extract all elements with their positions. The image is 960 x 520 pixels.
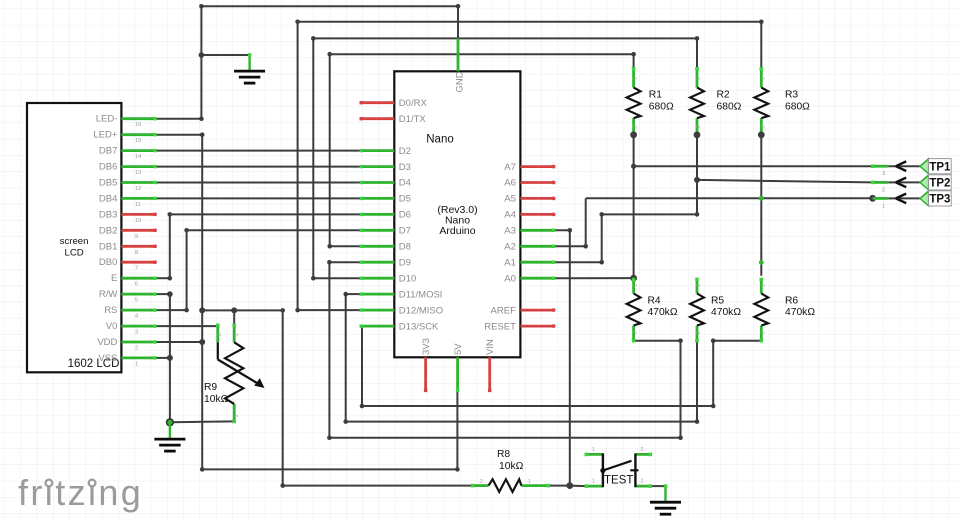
svg-text:R1: R1 bbox=[649, 90, 662, 101]
wire GND down to ground bbox=[200, 6, 202, 55]
svg-text:4: 4 bbox=[135, 314, 138, 320]
wire R3 top lead wire bbox=[760, 22, 762, 69]
svg-text:7: 7 bbox=[135, 266, 138, 272]
svg-text:VSS: VSS bbox=[98, 353, 117, 364]
junction bbox=[200, 132, 205, 137]
wire V0 to R9 wiper bbox=[155, 325, 218, 327]
wire A2 riser bbox=[585, 198, 587, 246]
wire D11 horizontal bbox=[346, 293, 362, 295]
wire R9 pin1 drop bbox=[233, 310, 235, 325]
nano pin A4 bbox=[520, 213, 553, 216]
resistor R6 470kohm bbox=[760, 280, 763, 294]
wire R2 top lead wire bbox=[696, 38, 698, 68]
wire RS to D7 bbox=[187, 229, 362, 231]
svg-text:2: 2 bbox=[641, 479, 644, 485]
junction bbox=[200, 467, 205, 472]
wire E to D6 bbox=[170, 213, 361, 215]
svg-text:1: 1 bbox=[696, 284, 702, 287]
svg-text:680Ω: 680Ω bbox=[785, 101, 810, 112]
svg-text:1: 1 bbox=[135, 361, 138, 367]
junction bbox=[199, 307, 205, 313]
wire R1 top lead wire bbox=[633, 54, 635, 69]
junction bbox=[280, 483, 285, 488]
junction bbox=[694, 177, 700, 183]
wire R/W-VSS column bbox=[169, 294, 171, 422]
wire A3 drop to TEST bbox=[569, 230, 571, 485]
test point TP3 bbox=[888, 197, 920, 199]
wire R1 feed riser bbox=[329, 54, 331, 246]
svg-text:1: 1 bbox=[592, 447, 595, 453]
svg-text:DB1: DB1 bbox=[99, 241, 117, 252]
junction bbox=[758, 131, 765, 138]
svg-text:LED-: LED- bbox=[96, 114, 118, 125]
svg-text:10kΩ: 10kΩ bbox=[204, 394, 229, 405]
nano pin D9 bbox=[361, 261, 394, 264]
svg-text:5: 5 bbox=[135, 298, 138, 304]
test point TP2 bbox=[888, 181, 920, 183]
junction bbox=[678, 435, 683, 440]
svg-text:RS: RS bbox=[104, 305, 117, 316]
junction bbox=[759, 20, 764, 25]
resistor R2 body bbox=[690, 88, 704, 119]
svg-text:1: 1 bbox=[760, 284, 766, 287]
junction bbox=[168, 212, 173, 217]
ground GND1 top bbox=[248, 55, 250, 71]
nano pin D2 bbox=[361, 149, 394, 152]
junction bbox=[295, 308, 300, 313]
svg-text:13: 13 bbox=[135, 170, 141, 176]
svg-text:D9: D9 bbox=[399, 257, 411, 268]
junction bbox=[168, 276, 173, 281]
svg-text:3: 3 bbox=[217, 333, 223, 336]
LCD pin DB7 bbox=[121, 149, 155, 152]
svg-text:680Ω: 680Ω bbox=[717, 101, 742, 112]
svg-text:A6: A6 bbox=[504, 178, 516, 189]
wire RS riser bbox=[186, 230, 188, 310]
LCD pin DB6 bbox=[121, 165, 155, 168]
ground GND3 test bbox=[664, 486, 666, 502]
nano pin D13/SCK bbox=[361, 325, 394, 328]
svg-text:Arduino: Arduino bbox=[439, 225, 475, 237]
resistor R5 470kohm bbox=[696, 280, 699, 294]
junction bbox=[327, 260, 332, 265]
svg-text:A1: A1 bbox=[504, 257, 516, 268]
nano pin A3 bbox=[520, 229, 553, 232]
green connection bbox=[759, 196, 764, 201]
wire TP2 wire bbox=[697, 180, 873, 183]
svg-text:1: 1 bbox=[592, 479, 595, 485]
nano pin 5V (bottom) bbox=[456, 357, 459, 390]
wire A1 riser bbox=[601, 214, 603, 262]
LCD pin R/W bbox=[121, 293, 155, 296]
svg-text:2: 2 bbox=[633, 125, 639, 128]
wire LED+ horizontal bbox=[155, 134, 202, 136]
potentiometer R9 10kohm bbox=[216, 325, 219, 342]
svg-text:680Ω: 680Ω bbox=[649, 101, 674, 112]
svg-text:D5: D5 bbox=[399, 194, 411, 205]
resistor R1 680ohm bbox=[632, 69, 635, 88]
nano pin D10 bbox=[361, 277, 394, 280]
svg-text:2: 2 bbox=[882, 187, 885, 193]
wire A0 horizontal bbox=[554, 277, 634, 279]
svg-text:470kΩ: 470kΩ bbox=[711, 307, 741, 318]
svg-text:DB7: DB7 bbox=[99, 146, 117, 157]
svg-text:V0: V0 bbox=[106, 321, 118, 332]
nano pin D12/MISO bbox=[361, 309, 394, 312]
wire R8 to TEST junction bbox=[548, 485, 570, 487]
wire E horizontal bbox=[155, 277, 170, 279]
ground GND2 left bbox=[169, 423, 171, 439]
wire R1 column bbox=[633, 135, 635, 278]
nano pin A7 bbox=[520, 165, 553, 168]
svg-text:D12/MISO: D12/MISO bbox=[399, 305, 443, 316]
junction bbox=[327, 435, 332, 440]
nano pin A5 bbox=[520, 197, 553, 200]
wire junction to TEST pin1 bbox=[570, 485, 587, 488]
svg-text:2: 2 bbox=[696, 125, 702, 128]
LCD pin DB3 bbox=[121, 213, 155, 216]
svg-text:Nano: Nano bbox=[426, 134, 454, 146]
svg-text:AREF: AREF bbox=[491, 305, 517, 316]
svg-text:9: 9 bbox=[135, 234, 138, 240]
svg-text:R9: R9 bbox=[204, 382, 217, 393]
LCD pin LED- bbox=[121, 117, 155, 120]
svg-text:2: 2 bbox=[633, 331, 639, 334]
svg-text:R6: R6 bbox=[785, 295, 798, 306]
wire D11 drop bbox=[345, 294, 347, 422]
junction bbox=[167, 291, 173, 297]
svg-text:1: 1 bbox=[633, 77, 639, 80]
svg-text:D2: D2 bbox=[399, 146, 411, 157]
nano pin GND (top) bbox=[457, 38, 460, 71]
svg-text:TP1: TP1 bbox=[929, 161, 951, 173]
junction bbox=[456, 4, 461, 9]
junction bbox=[455, 467, 460, 472]
svg-text:2: 2 bbox=[480, 479, 483, 485]
wire R6 bottom link bbox=[713, 340, 761, 342]
nano pin A1 bbox=[520, 261, 553, 264]
svg-text:A2: A2 bbox=[504, 242, 516, 253]
svg-text:1: 1 bbox=[234, 333, 240, 336]
wire TEST pin2 to ground bbox=[650, 485, 665, 487]
wire 5V drop to R8 bbox=[282, 310, 284, 485]
wire R6 bottom bus bbox=[362, 405, 713, 407]
wire RS horizontal bbox=[155, 309, 187, 311]
junction bbox=[199, 4, 204, 9]
svg-text:1: 1 bbox=[696, 77, 702, 80]
svg-text:D4: D4 bbox=[399, 178, 411, 189]
LCD pin LED+ bbox=[121, 133, 155, 136]
junction bbox=[630, 131, 637, 138]
svg-text:A5: A5 bbox=[504, 194, 516, 205]
svg-text:2: 2 bbox=[696, 331, 702, 334]
wire-end connection markers bbox=[632, 67, 636, 71]
wire D10 horizontal bbox=[313, 277, 361, 279]
wire VDD horizontal bbox=[155, 341, 202, 343]
junction bbox=[711, 338, 716, 343]
IC U1 Arduino Nano bbox=[394, 71, 520, 357]
junction bbox=[311, 276, 316, 281]
wire 5V column bbox=[201, 135, 203, 470]
wire TP1 wire bbox=[634, 165, 873, 167]
svg-text:LCD: LCD bbox=[64, 247, 83, 258]
junction bbox=[566, 482, 573, 489]
resistor R1 body bbox=[627, 88, 641, 119]
svg-text:VIN: VIN bbox=[485, 339, 496, 355]
junction bbox=[568, 228, 573, 233]
junction bbox=[360, 404, 365, 409]
wire LCD-DB5 to nano bbox=[155, 182, 361, 184]
junction bbox=[631, 52, 636, 57]
svg-text:14: 14 bbox=[135, 154, 141, 160]
junction bbox=[695, 419, 700, 424]
wire D9 horizontal bbox=[329, 261, 361, 263]
LCD pin V0 bbox=[121, 325, 155, 328]
LCD pin DB4 bbox=[121, 197, 155, 200]
nano pin 3V3 (bottom) bbox=[424, 357, 427, 390]
wire R3 column bbox=[760, 135, 762, 276]
junction bbox=[695, 36, 700, 41]
svg-text:D7: D7 bbox=[399, 226, 411, 237]
svg-text:10: 10 bbox=[135, 218, 141, 224]
nano pin D1/TX bbox=[361, 117, 394, 120]
wire GND riser bbox=[457, 6, 459, 38]
svg-text:2: 2 bbox=[135, 346, 138, 352]
nano pin AREF bbox=[520, 309, 553, 312]
junction bbox=[343, 292, 348, 297]
nano pin D6 bbox=[361, 213, 394, 216]
junction bbox=[631, 164, 636, 169]
wire LCD-DB4 to nano bbox=[155, 197, 361, 199]
svg-text:screen: screen bbox=[60, 236, 89, 247]
svg-text:LED+: LED+ bbox=[93, 130, 117, 141]
nano pin D0/RX bbox=[361, 101, 394, 104]
resistor R3 680ohm bbox=[760, 69, 763, 88]
wire R1 top horizontal bbox=[330, 53, 634, 55]
wire R9 pin2 to ground bbox=[170, 420, 234, 423]
junction bbox=[583, 244, 588, 249]
wire R4 bottom bus bbox=[329, 437, 680, 439]
resistor R8 10kohm bbox=[473, 484, 489, 487]
wire R3 top horizontal bbox=[298, 21, 762, 23]
wire LED- horizontal bbox=[155, 118, 201, 120]
svg-text:A4: A4 bbox=[504, 210, 516, 221]
junction bbox=[599, 260, 604, 265]
wire A3 horizontal bbox=[554, 229, 570, 231]
wire R4 bottom link bbox=[634, 340, 681, 342]
resistor R3 body bbox=[754, 88, 768, 119]
svg-text:A7: A7 bbox=[504, 162, 516, 173]
svg-text:RESET: RESET bbox=[484, 321, 516, 332]
svg-text:8: 8 bbox=[135, 250, 138, 256]
wire R2 feed riser bbox=[312, 38, 314, 278]
wire D8 horizontal bbox=[330, 245, 362, 247]
wire R4 bus riser bbox=[680, 341, 682, 438]
junction bbox=[343, 419, 348, 424]
LCD pin E bbox=[121, 277, 155, 280]
svg-text:fritzing: fritzing bbox=[18, 472, 143, 513]
svg-text:R2: R2 bbox=[717, 90, 730, 101]
wire R6 bus riser bbox=[712, 341, 714, 406]
junction bbox=[678, 338, 683, 343]
junction bbox=[869, 195, 876, 202]
nano pin A6 bbox=[520, 181, 553, 184]
resistor R4 body bbox=[627, 294, 641, 326]
svg-text:E: E bbox=[111, 273, 117, 284]
wire D9 drop bbox=[328, 262, 330, 438]
svg-text:D11/MOSI: D11/MOSI bbox=[399, 289, 443, 300]
svg-text:R/W: R/W bbox=[99, 289, 118, 300]
svg-text:TP3: TP3 bbox=[929, 194, 950, 206]
svg-text:2: 2 bbox=[234, 414, 240, 417]
resistor R5 body bbox=[690, 294, 704, 326]
wire A1 to R2 column bbox=[602, 213, 697, 215]
svg-text:D13/SCK: D13/SCK bbox=[399, 321, 439, 332]
svg-text:16: 16 bbox=[135, 122, 141, 128]
wire R2 column bbox=[696, 135, 698, 215]
svg-text:3: 3 bbox=[135, 330, 138, 336]
wire GND down to LED- bbox=[200, 55, 202, 119]
svg-text:1: 1 bbox=[633, 284, 639, 287]
LCD pin RS bbox=[121, 309, 155, 312]
svg-text:R5: R5 bbox=[711, 295, 724, 306]
junction bbox=[711, 404, 716, 409]
svg-text:2: 2 bbox=[760, 125, 766, 128]
wire to R8 pin2 bbox=[283, 485, 473, 487]
junction bbox=[599, 212, 604, 217]
nano pin D3 bbox=[361, 165, 394, 168]
svg-text:470kΩ: 470kΩ bbox=[648, 307, 678, 318]
LCD pin DB2 bbox=[121, 229, 155, 232]
R9 wiper arrow bbox=[218, 360, 260, 385]
LCD pin VSS bbox=[121, 356, 155, 359]
svg-text:DB5: DB5 bbox=[99, 178, 117, 189]
junction bbox=[327, 52, 332, 57]
wire VSS horizontal bbox=[155, 357, 170, 359]
junction bbox=[295, 20, 300, 25]
junction bbox=[695, 212, 700, 217]
junction bbox=[184, 228, 189, 233]
svg-text:TP2: TP2 bbox=[929, 178, 950, 190]
junction bbox=[311, 36, 316, 41]
LCD pin VDD bbox=[121, 341, 155, 344]
wire to ground symbol bbox=[201, 54, 249, 56]
svg-text:15: 15 bbox=[135, 138, 141, 144]
svg-text:D0/RX: D0/RX bbox=[399, 98, 428, 109]
svg-text:1: 1 bbox=[882, 203, 885, 209]
svg-text:A0: A0 bbox=[504, 273, 516, 284]
svg-text:VDD: VDD bbox=[97, 337, 117, 348]
junction bbox=[184, 308, 189, 313]
svg-text:D1/TX: D1/TX bbox=[399, 114, 427, 125]
svg-text:11: 11 bbox=[135, 202, 141, 208]
nano pin D5 bbox=[361, 197, 394, 200]
wire LCD-DB7 to nano bbox=[155, 150, 361, 152]
wire 5V bottom bus bbox=[202, 468, 457, 470]
svg-text:R3: R3 bbox=[785, 90, 798, 101]
svg-text:2: 2 bbox=[641, 447, 644, 453]
nano pin A2 bbox=[520, 245, 553, 248]
junction ground2 bbox=[167, 419, 174, 426]
wire A1 horizontal bbox=[554, 261, 602, 263]
svg-text:R8: R8 bbox=[497, 449, 510, 460]
wire TP3 wire right bbox=[761, 197, 872, 199]
junction bbox=[167, 355, 173, 361]
svg-text:R4: R4 bbox=[648, 295, 661, 306]
wire R5 bus riser bbox=[696, 341, 698, 422]
wire D13 drop bbox=[361, 326, 363, 406]
junction bbox=[199, 52, 205, 58]
wire LCD-DB6 to nano bbox=[155, 166, 361, 168]
svg-text:DB4: DB4 bbox=[99, 193, 117, 204]
svg-text:5V: 5V bbox=[453, 343, 464, 355]
svg-text:DB0: DB0 bbox=[99, 257, 117, 268]
junction bbox=[694, 131, 701, 138]
LCD pin DB1 bbox=[121, 245, 155, 248]
nano pin VIN (bottom) bbox=[488, 357, 491, 390]
wire R5 bottom bus bbox=[346, 421, 697, 423]
wire 5V to R9/R8 bbox=[202, 309, 283, 311]
svg-text:A3: A3 bbox=[504, 226, 516, 237]
wire ground3 corner bbox=[665, 486, 667, 488]
wire R3 feed riser bbox=[297, 22, 299, 310]
svg-text:10kΩ: 10kΩ bbox=[499, 461, 524, 472]
resistor R6 body bbox=[754, 294, 768, 326]
svg-text:12: 12 bbox=[135, 186, 141, 192]
nano pin D11/MOSI bbox=[361, 293, 394, 296]
junction bbox=[199, 116, 204, 121]
svg-text:D3: D3 bbox=[399, 162, 411, 173]
LCD pin DB0 bbox=[121, 261, 155, 264]
svg-text:6: 6 bbox=[135, 282, 138, 288]
nano pin D4 bbox=[361, 181, 394, 184]
junction bbox=[327, 244, 332, 249]
svg-text:DB6: DB6 bbox=[99, 162, 117, 173]
svg-text:D8: D8 bbox=[399, 242, 411, 253]
wire A2 horizontal bbox=[554, 245, 586, 247]
green connection bbox=[759, 260, 764, 265]
wire R/W horizontal bbox=[155, 293, 170, 295]
nano pin D7 bbox=[361, 229, 394, 232]
svg-text:DB3: DB3 bbox=[99, 209, 117, 220]
svg-text:3V3: 3V3 bbox=[421, 338, 432, 355]
svg-text:1: 1 bbox=[528, 479, 531, 485]
svg-text:TEST: TEST bbox=[604, 475, 633, 487]
wire 5V riser to nano bbox=[456, 390, 458, 469]
svg-text:1: 1 bbox=[760, 77, 766, 80]
LCD pin DB5 bbox=[121, 181, 155, 184]
nano pin D8 bbox=[361, 245, 394, 248]
nano pin RESET bbox=[520, 325, 553, 328]
svg-text:D10: D10 bbox=[399, 273, 416, 284]
resistor R4 470kohm bbox=[632, 280, 635, 294]
wire D12 horizontal bbox=[298, 309, 362, 311]
LCD1 1602 screen LCD part bbox=[27, 103, 121, 372]
junction bbox=[280, 308, 285, 313]
svg-text:D6: D6 bbox=[399, 210, 411, 221]
junction bbox=[199, 339, 205, 345]
svg-text:GND: GND bbox=[455, 71, 466, 92]
wire R2 top horizontal bbox=[313, 37, 697, 39]
svg-text:DB2: DB2 bbox=[99, 225, 117, 236]
wire E riser bbox=[169, 214, 171, 278]
svg-text:470kΩ: 470kΩ bbox=[785, 307, 815, 318]
resistor R2 680ohm bbox=[696, 69, 699, 88]
switch TEST pushbutton bbox=[586, 453, 603, 456]
junction bbox=[231, 307, 237, 313]
wire D13 horizontal bbox=[360, 325, 363, 327]
wire GND top horizontal bbox=[201, 5, 458, 7]
